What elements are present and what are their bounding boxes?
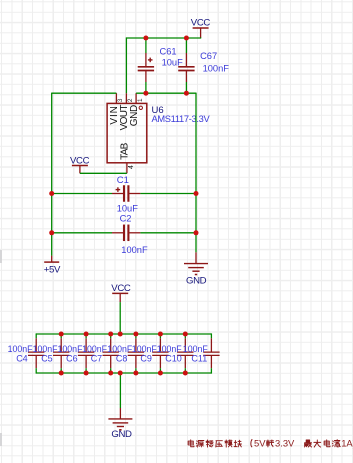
svg-text:100nF: 100nF (203, 64, 230, 74)
svg-text:5V: 5V (254, 438, 266, 449)
svg-text:C7: C7 (91, 353, 103, 363)
svg-text:GND: GND (111, 429, 132, 440)
svg-text:4: 4 (128, 165, 135, 169)
svg-text:C6: C6 (66, 353, 78, 363)
svg-text:VCC: VCC (111, 283, 131, 294)
svg-text:100nF: 100nF (121, 245, 148, 255)
svg-text:3.3V: 3.3V (275, 438, 295, 449)
svg-text:C4: C4 (16, 353, 28, 363)
svg-text:AMS1117-3.3V: AMS1117-3.3V (152, 114, 211, 124)
svg-text:C8: C8 (116, 353, 128, 363)
svg-text:C10: C10 (165, 353, 182, 363)
svg-text:2: 2 (127, 98, 134, 102)
svg-text:C5: C5 (41, 353, 53, 363)
svg-text:C9: C9 (140, 353, 152, 363)
svg-text:TAB: TAB (120, 142, 131, 159)
svg-text:1: 1 (137, 98, 144, 102)
svg-text:10uF: 10uF (162, 57, 184, 67)
svg-text:10uF: 10uF (117, 204, 139, 214)
svg-text:C61: C61 (160, 47, 177, 57)
svg-text:C11: C11 (191, 353, 207, 363)
svg-text:3: 3 (117, 98, 124, 102)
svg-text:C2: C2 (120, 214, 132, 224)
svg-text:C67: C67 (200, 51, 217, 61)
svg-text:+5V: +5V (44, 265, 61, 276)
svg-text:GND: GND (129, 105, 140, 126)
svg-text:VCC: VCC (70, 155, 90, 166)
svg-text:C1: C1 (117, 175, 129, 186)
svg-text:GND: GND (186, 275, 207, 286)
svg-text:VCC: VCC (191, 17, 211, 28)
svg-text:1A): 1A) (341, 438, 353, 449)
